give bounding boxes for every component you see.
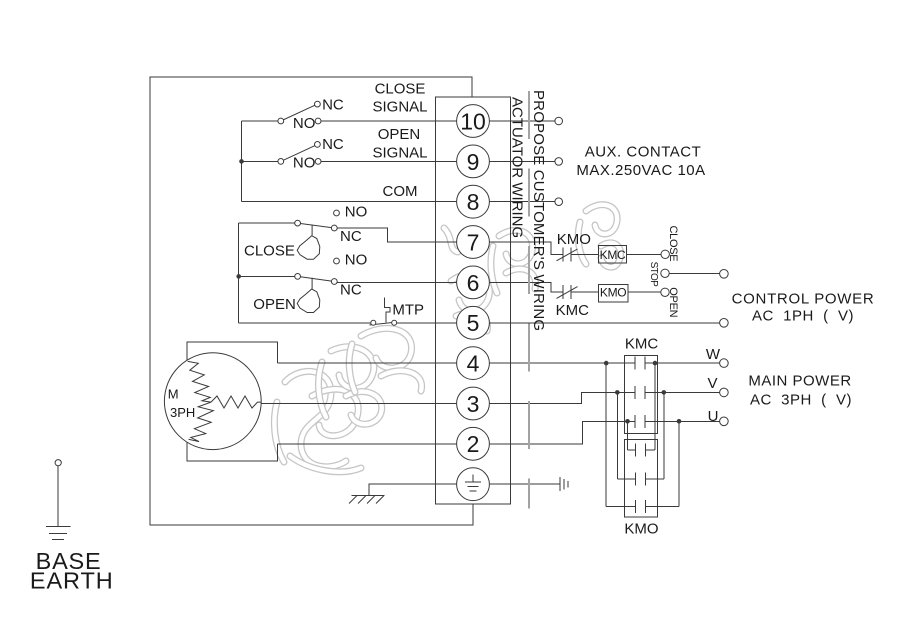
terminal numbers (460, 108, 486, 457)
wire: terminal 5 to control power (473, 322, 720, 324)
contactor KMC box (625, 355, 658, 433)
svg-text:NO: NO (293, 155, 316, 172)
wire: stop button to control power (669, 272, 720, 274)
wire: motor U to terminal 2 (278, 443, 473, 445)
junction dot open limit tap (236, 274, 241, 279)
svg-text:7: 7 (467, 229, 480, 255)
switch S1 common (278, 118, 284, 124)
svg-text:W: W (706, 346, 721, 363)
KMC contact V bars (634, 386, 636, 399)
svg-text:PROPOSE CUSTOMER'S WIRING: PROPOSE CUSTOMER'S WIRING (530, 90, 547, 331)
svg-text:CONTROL POWER: CONTROL POWER (732, 290, 875, 307)
KMO contact 1 (634, 444, 636, 457)
svg-text:CLOSE: CLOSE (375, 81, 426, 98)
terminal 7 circle (457, 226, 490, 259)
KMC contact W bars (634, 357, 636, 370)
junction dot V left (615, 390, 620, 395)
junction dot W left (604, 361, 609, 366)
switch S1 NO (315, 118, 321, 124)
switch S1 lever (281, 104, 318, 121)
svg-text:COM: COM (383, 183, 418, 200)
svg-text:OPEN: OPEN (667, 287, 679, 317)
svg-text:U: U (708, 408, 719, 425)
svg-text:CLOSE: CLOSE (667, 226, 679, 262)
base earth electrode (57, 466, 59, 527)
svg-text:10: 10 (460, 108, 486, 134)
wire: close limit common (239, 222, 298, 224)
wire: KMO coil to open button (628, 291, 661, 293)
wire: KMO3 riser to U (678, 421, 680, 506)
terminal 10 circle (457, 105, 490, 138)
junction dot V right (662, 390, 667, 395)
wire: motor W to terminal 4 and KMC (278, 362, 635, 364)
terminal 8 circle (457, 185, 490, 218)
junction dot W right (653, 361, 658, 366)
svg-text:CLOSE: CLOSE (244, 243, 295, 260)
MTP terminal b (392, 320, 397, 325)
wire: terminal 7 to KMC coil row (473, 242, 563, 254)
terminal 9 circle (457, 145, 490, 178)
wire: U phase drop (627, 421, 629, 450)
svg-text:8: 8 (467, 189, 480, 215)
svg-text:NC: NC (322, 97, 344, 114)
wire: V phase drop (616, 392, 618, 479)
coil KMC box (598, 245, 626, 262)
svg-text:3PH: 3PH (170, 405, 195, 420)
motor winding 1 (188, 361, 211, 402)
wire: terminal 9 to aux contact (473, 160, 555, 162)
switch S1 NC (315, 101, 321, 107)
svg-text:AC 1PH ( V): AC 1PH ( V) (752, 307, 854, 324)
wire: KMC coil to close button (627, 253, 661, 255)
terminal 4 circle (457, 347, 490, 380)
svg-text:NO: NO (345, 203, 368, 220)
svg-text:4: 4 (467, 351, 480, 377)
control power terminal 1 (720, 270, 729, 279)
svg-text:3: 3 (467, 391, 480, 417)
svg-text:NC: NC (340, 282, 362, 299)
open limit common (295, 274, 301, 280)
open limit lever (298, 276, 335, 281)
close limit NC (331, 225, 337, 231)
wire: open limit NC to terminal 6 (334, 281, 473, 283)
open limit cam (297, 278, 320, 313)
coil KMO box (598, 285, 628, 303)
wire: terminal 6 to KMO coil row (473, 282, 563, 292)
svg-text:5: 5 (467, 310, 480, 336)
wire: close signal row (242, 120, 281, 122)
wire: terminal 8 to aux contact (473, 201, 555, 203)
close limit NO (334, 210, 340, 216)
wire: open limit common (239, 275, 298, 277)
wire: ground terminal to chassis earth (473, 483, 560, 485)
aux contact terminal 9 (555, 158, 563, 166)
KMO contact 2 (634, 473, 636, 486)
wire: MTP row to terminal 5 (239, 322, 371, 324)
motor winding 3 (189, 402, 214, 442)
stop button circle (661, 269, 669, 277)
motor bracket (187, 342, 277, 461)
outer earth loop wire (150, 77, 473, 525)
W terminal (720, 359, 729, 368)
label BASE EARTH (30, 548, 114, 594)
wire: limit switch vertical bus (238, 223, 240, 323)
hatched earth bar (352, 495, 385, 497)
wire: motor V to terminal 3 (261, 403, 473, 405)
wire: terminal 10 to aux contact (473, 120, 555, 122)
svg-text:KMO: KMO (600, 286, 626, 300)
wire: terminal 2 jog up to U line (473, 421, 635, 444)
svg-text:ACTUATOR WIRING: ACTUATOR WIRING (508, 97, 525, 238)
thermal switch MTP actuator (385, 298, 391, 323)
switch S2 common (278, 159, 284, 165)
aux contact terminal 10 (555, 117, 563, 125)
switch S2 NC (315, 142, 321, 148)
motor M circle (164, 353, 261, 450)
svg-text:KMC: KMC (625, 335, 659, 352)
wire: ground terminal to hatched earth (369, 484, 473, 495)
V terminal (720, 388, 729, 397)
svg-text:MAIN POWER: MAIN POWER (748, 373, 851, 390)
open limit NO (334, 258, 340, 264)
junction dot U left (625, 419, 630, 424)
switch S2 NO (315, 159, 321, 165)
svg-text:NO: NO (293, 115, 316, 132)
close limit lever (298, 223, 335, 228)
wire: W phase drop (605, 363, 607, 506)
MTP terminal a (371, 320, 376, 325)
svg-text:MAX.250VAC 10A: MAX.250VAC 10A (576, 162, 705, 179)
svg-text:EARTH: EARTH (30, 568, 114, 594)
svg-text:NC: NC (322, 136, 344, 153)
U terminal (720, 417, 729, 426)
KMC interlock slash (557, 287, 578, 299)
wire: open signal row (242, 160, 281, 162)
aux contact terminal 8 (555, 198, 563, 206)
svg-text:KMC: KMC (600, 248, 626, 262)
svg-text:KMO: KMO (624, 521, 658, 538)
svg-text:6: 6 (467, 270, 480, 296)
close limit common (295, 220, 301, 226)
terminal 5 circle (457, 306, 490, 339)
contactor KMO box (625, 440, 658, 517)
base earth circle (55, 460, 61, 466)
MTP bridge contact (370, 322, 398, 325)
open limit NC (331, 279, 337, 285)
ground terminal circle (457, 468, 490, 501)
terminal 6 circle (457, 266, 490, 299)
svg-text:SIGNAL: SIGNAL (372, 98, 427, 115)
svg-text:OPEN: OPEN (378, 126, 421, 143)
svg-text:OPEN: OPEN (253, 296, 296, 313)
KMC interlock contact bars (562, 285, 564, 299)
customer/actuator boundary dashed line (528, 91, 530, 508)
svg-text:NO: NO (345, 251, 368, 268)
watermark (274, 205, 620, 472)
svg-text:STOP: STOP (648, 262, 659, 288)
svg-text:KMO: KMO (557, 231, 591, 248)
svg-text:9: 9 (467, 149, 480, 175)
close limit cam (297, 225, 320, 260)
KMO contact 3 (634, 500, 636, 513)
hatched earth strokes (349, 496, 357, 504)
KMC contact U bars (634, 415, 636, 428)
chassis earth symbol (559, 477, 561, 491)
terminal 3 circle (457, 387, 490, 420)
terminal 2 circle (457, 427, 490, 460)
terminal strip box (436, 97, 511, 504)
wire: close limit NC to terminal 7 (334, 228, 473, 242)
wire: terminal 3 jog up to V line (473, 392, 635, 403)
svg-text:2: 2 (467, 431, 480, 457)
wire: COM row (242, 201, 474, 203)
svg-text:V: V (707, 375, 717, 392)
svg-text:KMC: KMC (556, 302, 590, 319)
control power terminal 2 (720, 319, 729, 328)
junction dot S2 tap (239, 159, 244, 164)
svg-text:AUX. CONTACT: AUX. CONTACT (585, 144, 702, 161)
motor winding 2 (211, 396, 261, 408)
open button circle (661, 288, 669, 296)
wire: aux left vertical bus (241, 121, 243, 202)
KMO interlock contact bars (562, 247, 564, 261)
ground terminal earth symbol (465, 474, 481, 491)
svg-text:MTP: MTP (392, 302, 424, 319)
KMO interlock slash (557, 249, 578, 261)
wire: KMO1 riser to W (654, 363, 656, 450)
wire: KMO2 riser to V (663, 392, 665, 479)
close button circle (661, 250, 669, 258)
svg-text:NC: NC (340, 228, 362, 245)
svg-text:SIGNAL: SIGNAL (372, 145, 427, 162)
svg-text:AC 3PH ( V): AC 3PH ( V) (750, 391, 852, 408)
svg-text:M: M (168, 387, 179, 402)
switch S2 lever (281, 144, 318, 161)
junction dot U right (677, 419, 682, 424)
